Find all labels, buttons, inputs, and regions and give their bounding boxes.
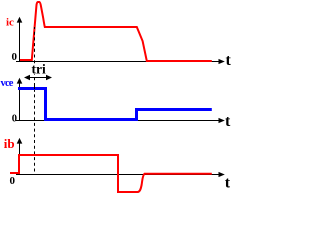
svg-text:vce: vce: [1, 78, 14, 89]
svg-text:ic: ic: [6, 17, 14, 29]
svg-text:t: t: [225, 175, 231, 192]
svg-text:0: 0: [12, 114, 17, 125]
svg-text:0: 0: [10, 175, 16, 187]
svg-text:tri: tri: [32, 62, 46, 77]
svg-text:t: t: [225, 113, 231, 130]
svg-text:ib: ib: [4, 136, 15, 151]
svg-text:t: t: [226, 52, 232, 69]
svg-text:0: 0: [12, 51, 18, 63]
